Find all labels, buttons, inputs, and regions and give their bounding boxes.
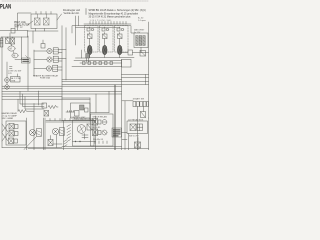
connector block small [128,50,133,55]
wire y120.5 [62,120,96,122]
junction dot b [79,141,80,142]
bottom-left unit box [6,121,26,145]
unit2 injector [102,42,107,58]
valve v2 [139,36,141,46]
left top bus [0,30,28,32]
gauge marks [82,134,88,140]
inner box top [62,98,90,121]
unit3 injector [117,42,122,58]
resistor zigzag 2 [48,105,58,108]
lamp row 3 [46,66,51,71]
cluster left riser [33,50,35,76]
unit3 sensor [117,27,124,31]
riser x34 [33,104,35,151]
br coil [102,120,107,125]
junction wires center [76,50,87,58]
connector row wire y63 [80,62,122,64]
stair wire 1 [20,91,44,104]
inner box c [75,111,80,117]
stub x145.5 [145,75,147,85]
gauge bottom wire [73,141,96,143]
right riser x121.5 [121,60,123,151]
connector tick a [83,62,86,65]
bl relay 1 [9,124,18,130]
lamp row 2 [47,57,52,62]
injector unit 2 dashed box [100,26,114,53]
junction dot a [75,141,76,142]
wire feed to relay box K1 [18,13,32,30]
cluster wires [34,50,66,71]
svg-text:FUEL GAUGE UNIT: FUEL GAUGE UNIT [74,118,93,121]
hatch marks lower [64,140,67,147]
svg-text:1J4L7L0NL3AL: 1J4L7L0NL3AL [90,19,113,22]
bottom rails [28,147,149,149]
main bus y96.6 [2,96,62,98]
left bus horizontal [1,36,28,38]
header divider mark [85,9,87,15]
injector unit 3 dashed box [115,26,129,53]
svg-text:M: M [10,48,12,51]
bl relay 2 [9,131,18,137]
bus wire from comb 2 [76,27,121,29]
right bus y74.5 [122,74,149,76]
relay bm [48,136,53,146]
bus riser x43.5 x45 [44,118,46,150]
bus y79.5 [62,79,122,81]
wire x7 [6,62,8,78]
riser x96 [95,94,97,113]
unit1 injector [87,42,92,58]
connector row wire y60.5 [74,60,122,62]
pointer line [27,21,33,26]
svg-text:M: M [13,55,15,58]
stair wire 2 [23,94,45,107]
big box left lower [61,98,63,121]
rear label box dark [22,56,31,64]
svg-text:Ventile der Anl.: Ventile der Anl. [64,12,80,15]
svg-text:31b 53a 53: 31b 53a 53 [93,139,104,141]
riser x33 [32,31,34,43]
G1 feed wire [42,40,44,44]
riser x38.5 [38,91,40,105]
connector row 3 [53,65,58,71]
wire y139.5 right [122,139,127,141]
svg-text:THE: THE [11,80,16,82]
gauge unit box [73,120,95,146]
relay K2b [11,37,15,44]
fr drop wire [137,138,139,151]
unit1 sensor [87,27,94,31]
bus riser x95.5 [95,116,97,150]
pressure switch circle [5,78,10,83]
riser x26.5 [26,118,28,150]
gauge circle [77,125,86,134]
connector tick b [88,62,91,65]
riser x27.5 [27,31,29,37]
fuse left edge [0,38,3,47]
relay lower [44,111,49,117]
bus wire from comb [72,26,134,33]
left riser bottom area [63,121,65,150]
bl relay 3 [9,138,18,144]
bus ticks [50,119,70,121]
wire to label [17,74,19,77]
br sensor [102,130,107,135]
fr comp a [130,124,136,131]
feed wire y112.5 [91,91,110,112]
unit3 relay [118,33,123,43]
injector unit 1 dashed box [85,26,99,53]
svg-text:12V: 12V [8,73,12,75]
connector row wire y66.5 [72,66,122,68]
vertical drop x62 [61,26,63,98]
valve block drop wire [140,48,142,53]
svg-text:30 15 X 54 Kl.31 Masse geschal: 30 15 X 54 Kl.31 Masse geschaltet plus [89,16,132,19]
top small box G1 [41,44,45,49]
bus component box [11,28,15,33]
fr comp b [137,124,143,131]
br relay 1 [93,119,102,126]
lamp L2 [52,128,58,134]
right valve block box [134,33,148,48]
svg-text:1.4 qmm: 1.4 qmm [138,20,146,22]
bottom right unit box [91,114,114,146]
unit2 relay [103,33,108,43]
svg-text:SW 1 GNBR: SW 1 GNBR [2,118,14,120]
valve v1 [136,36,138,46]
svg-text:UNIT 22: UNIT 22 [14,27,23,29]
relay box K1 outline [31,14,57,29]
right edge wire [148,22,150,118]
connector tick e [105,62,108,65]
right connector row [133,102,149,107]
hatch box H1 [37,129,42,137]
valve v3 [143,36,145,46]
main bus y99.2 [2,98,90,100]
connector tick f [110,62,113,65]
fr bottom comp [135,142,141,148]
far right unit box [127,121,148,134]
svg-text:FUSE 16A: FUSE 16A [40,77,50,80]
bottom rail [2,147,62,149]
diagonal lead to K1 [57,14,62,20]
br relay 2 [93,129,102,136]
main bus y86.2 [2,85,122,87]
wire to connector [120,52,149,54]
svg-text:PLAN: PLAN [0,3,11,10]
diagonal bottom left [24,137,36,150]
wire label to unit [122,132,128,134]
svg-text:18 BATT SW: 18 BATT SW [133,98,145,101]
right bus y77.5 [122,77,149,79]
connector feed [122,101,144,150]
hatch box H2 [60,128,65,136]
lamp L1 [29,129,35,135]
riser x78.5 [78,16,80,26]
top double bus bottom mid [46,121,96,123]
bus riser x115 double [114,85,115,150]
connector tick d [99,62,102,65]
wire x56.5 [56,135,58,148]
unit1 relay [88,33,93,43]
connector row 1 [53,48,58,54]
injector common rail wire [87,57,134,59]
main bus y94 [2,93,122,95]
riser x75.5 [75,16,77,45]
left feed vertical [9,33,11,37]
riser x128.5 low [128,134,130,151]
resistor blob center [86,54,90,63]
crossing wires left [2,124,8,141]
junction marks [10,67,13,69]
dark label box right [112,128,122,137]
bus y81.5 [62,81,149,83]
connector row 2 [53,56,58,62]
gauge comp [87,124,92,130]
switch label box [11,77,21,83]
motor M2 [12,51,18,58]
small box right mid [122,60,132,68]
tick row [66,111,74,113]
sensor right [140,51,146,57]
main bus y88.8 [2,88,62,90]
stair wire 3 [25,97,44,109]
riser x125 [124,101,126,150]
relay K1a [35,18,41,25]
resistor zigzag [18,110,34,113]
connector comb top right [84,23,131,25]
main bus y91.4 [2,90,122,92]
relay K1b [44,18,50,25]
left edge riser [1,37,3,148]
motor M1 [8,44,15,51]
svg-text:WISCH RELAIS: WISCH RELAIS [93,116,108,119]
resistor wire [17,99,19,111]
wire y144 [53,143,62,145]
svg-text:86 30 85: 86 30 85 [93,127,102,129]
inner blob [80,105,85,110]
vertical drop x66 [65,28,67,80]
right sensor comp [141,112,146,118]
inner unit box [71,103,91,118]
thermo ladder [67,125,71,142]
relay K2a [6,37,10,44]
sender diamond [4,82,10,89]
inner box b [85,108,89,112]
wire x21 [15,37,28,60]
K1 terminal ticks [36,12,51,15]
bus y84.5 [62,84,149,86]
lamp row 1 [47,48,52,53]
far right riser [148,118,150,150]
comp box x42 [42,103,47,108]
K1 output wires [28,29,59,32]
outer border top faint [2,0,148,2]
br bottom ticks [95,141,107,144]
unit2 sensor [102,27,109,31]
wire x28 left riser [27,36,29,91]
connector tick c [94,62,97,65]
